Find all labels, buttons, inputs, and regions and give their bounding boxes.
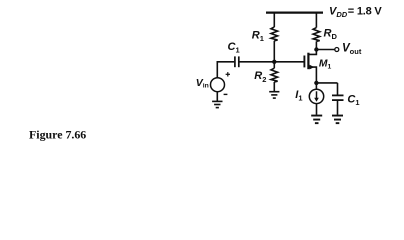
Vin plus sign <box>226 72 230 76</box>
capacitor C1 (bypass) <box>332 95 344 100</box>
wire node B to Vout <box>316 49 334 51</box>
wire node A to R2 <box>273 62 275 68</box>
voltage source Vin <box>211 78 225 92</box>
ground (Vin) <box>212 101 222 109</box>
wire I1 to ground <box>316 104 318 115</box>
svg-text:R2: R2 <box>254 70 266 84</box>
node B junction dot <box>314 47 318 51</box>
svg-text:C1: C1 <box>228 41 240 54</box>
wire C1 to node A <box>240 61 275 63</box>
terminal Vout open circle <box>335 48 339 52</box>
wire node C to I1 <box>315 83 317 89</box>
svg-text:R1: R1 <box>252 29 264 43</box>
svg-text:VDD: VDD <box>329 6 348 20</box>
svg-text:RD: RD <box>324 27 338 41</box>
wire C1 bypass to ground <box>337 101 339 115</box>
node A junction dot <box>272 60 276 64</box>
svg-text:Figure 7.66: Figure 7.66 <box>29 127 86 141</box>
current source I1 arrow <box>316 91 318 99</box>
wire node A to gate <box>274 61 304 63</box>
wire node C to C1 bypass top plate <box>337 83 339 95</box>
svg-text:I1: I1 <box>295 89 302 102</box>
node C junction dot <box>314 81 318 85</box>
wire RD to node B <box>315 41 317 49</box>
svg-text:Vout: Vout <box>342 42 362 56</box>
resistor R1 <box>271 27 278 41</box>
svg-text:= 1.8 V: = 1.8 V <box>348 6 383 18</box>
wire rail to RD <box>315 13 317 28</box>
resistor R2 <box>271 68 278 82</box>
ground (I1) <box>311 115 322 125</box>
wire Vin to C1 <box>217 62 234 78</box>
wire Vin bottom <box>216 92 218 101</box>
wire R2 to ground <box>273 82 275 91</box>
Vin minus sign <box>224 94 228 95</box>
ground (C1 bypass) <box>332 115 343 125</box>
transistor M1 source arrow <box>310 65 315 70</box>
ground (R2) <box>269 91 279 99</box>
svg-text:C1: C1 <box>347 93 359 106</box>
capacitor C1 (coupling) <box>235 56 239 67</box>
current source I1 <box>309 89 323 103</box>
svg-text:Vin: Vin <box>196 77 209 90</box>
resistor RD <box>313 28 320 42</box>
wire rail to R1 <box>273 13 275 27</box>
svg-text:M1: M1 <box>319 59 332 71</box>
wire node C to C1 bypass <box>316 82 337 84</box>
transistor M1 <box>304 50 316 83</box>
wire R1 to node A <box>273 41 275 62</box>
wire VDD rail <box>266 11 323 13</box>
